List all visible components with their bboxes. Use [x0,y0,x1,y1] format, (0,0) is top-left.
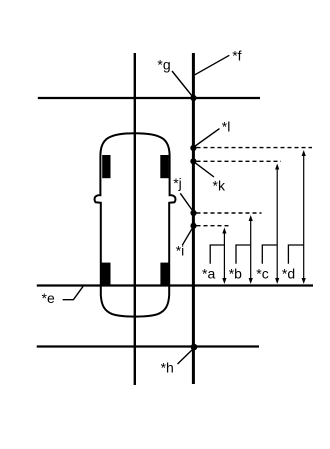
svg-text:*h: *h [161,359,174,375]
leader line l [195,129,220,147]
leader line h [178,349,194,364]
svg-text:*k: *k [213,177,226,193]
wire vertical lane line left [134,53,136,385]
svg-text:*c: *c [256,266,268,282]
leader line i [182,228,192,245]
tire front-left [102,155,110,178]
dimension arrow d [302,150,306,284]
leader line e [63,285,85,300]
dimension arrow c [275,164,279,285]
car body outline [95,133,176,316]
dimension arrow a [222,228,226,285]
tire rear-left [101,263,111,286]
wire horizontal road line middle [37,284,313,286]
bracket for a [210,245,224,264]
svg-text:*i: *i [176,243,185,259]
node h dot [191,344,198,351]
svg-text:*j: *j [173,175,182,191]
dashed reference line from k [197,160,282,162]
dashed reference line from l [197,147,313,149]
svg-text:*d: *d [282,266,295,282]
bracket for d [288,245,303,264]
svg-text:*g: *g [157,57,170,73]
svg-text:*a: *a [202,266,215,282]
leader line k [195,162,215,177]
bracket for c [262,245,277,264]
tire front-right [160,155,169,178]
leader line g [172,71,193,97]
dimension arrow b [249,215,253,284]
node g dot [190,95,196,101]
node i dot [190,223,196,229]
svg-text:*l: *l [222,118,231,134]
node l dot [190,145,196,151]
svg-text:*e: *e [42,290,55,306]
leader line j [180,193,193,211]
dashed reference line from i [197,225,232,227]
tire rear-right [160,263,169,286]
bracket for b [236,245,250,264]
svg-text:*f: *f [232,47,241,63]
wire vertical lane line right [192,53,195,384]
wire horizontal road line top [38,97,260,99]
dashed reference line from j [197,212,262,214]
node k dot [190,158,196,164]
node j dot [190,210,196,216]
svg-text:*b: *b [229,266,242,282]
wire horizontal road line bottom [37,345,259,347]
leader line f [195,55,230,75]
